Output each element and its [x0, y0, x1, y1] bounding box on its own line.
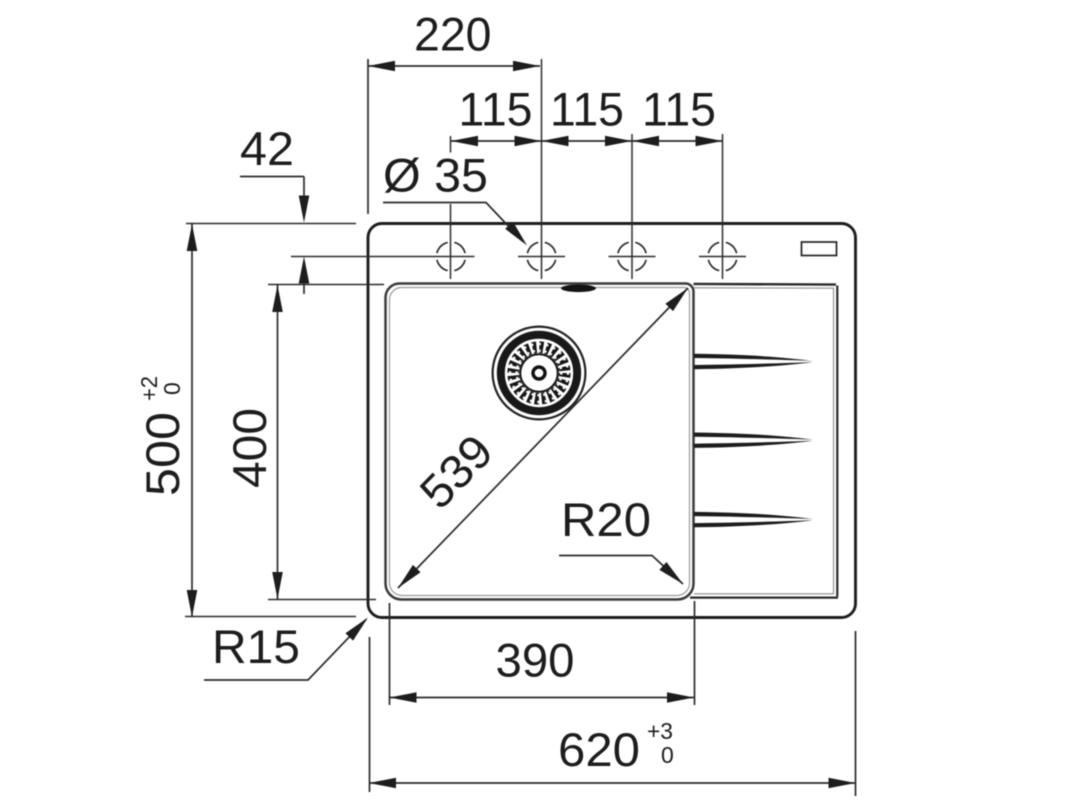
svg-text:115: 115 [550, 83, 624, 136]
dim 115 chain line [451, 140, 723, 142]
svg-text:R20: R20 [561, 493, 651, 546]
drainboard ridge 1 [694, 354, 813, 361]
dim 115 arrows [451, 136, 478, 147]
extension line: bowl top to left [268, 284, 384, 286]
svg-text:500: 500 [136, 412, 189, 496]
tap hole 2 [518, 59, 565, 279]
tap hole 1 [291, 136, 475, 279]
bowl inner echo line [390, 288, 690, 596]
dim 500 line [191, 224, 193, 617]
drainboard right edge [833, 288, 835, 594]
svg-text:R15: R15 [212, 620, 300, 673]
dim 400 label [223, 408, 276, 488]
svg-text:620: 620 [558, 723, 640, 776]
drainboard ridge 3 [694, 512, 813, 519]
dim 390 [390, 601, 695, 705]
dim 620 [369, 631, 856, 796]
dim 220 arrows [368, 61, 395, 72]
dim 500 label with tolerance [136, 376, 189, 496]
extension line: sink bottom to left [185, 616, 356, 618]
dim 539 diagonal [398, 288, 688, 588]
dim 220 line [368, 59, 540, 214]
tap hole 3 [609, 134, 656, 279]
svg-text:390: 390 [496, 634, 575, 687]
drainboard bottom edge [694, 593, 834, 595]
extension line: bowl bottom to left [268, 599, 376, 601]
dim 42 arrows [299, 196, 310, 223]
dim 400 line [277, 285, 279, 599]
svg-text:42: 42 [240, 122, 294, 175]
dim 42 leader [240, 177, 304, 295]
R20 leader [559, 556, 683, 585]
dim 539 label [409, 424, 503, 518]
svg-text:400: 400 [223, 408, 276, 488]
drainboard top edge [694, 283, 837, 286]
tap hole 4 [699, 134, 746, 279]
svg-text:115: 115 [459, 83, 533, 136]
drainboard ridge 2 [694, 433, 813, 440]
svg-text:115: 115 [642, 83, 716, 136]
small rectangle detail on rim top-right [802, 242, 837, 256]
bowl outline [386, 284, 694, 600]
sink outer rim [368, 224, 856, 618]
diameter 35 leader [383, 203, 512, 231]
overflow slot [561, 285, 596, 293]
drain strainer [493, 327, 586, 420]
svg-text:+3: +3 [647, 718, 673, 744]
extension line: sink top to left [186, 223, 356, 225]
R15 leader [204, 620, 366, 681]
svg-text:220: 220 [414, 8, 492, 61]
svg-text:0: 0 [661, 742, 674, 768]
svg-text:Ø 35: Ø 35 [383, 149, 488, 202]
svg-text:0: 0 [159, 382, 185, 395]
